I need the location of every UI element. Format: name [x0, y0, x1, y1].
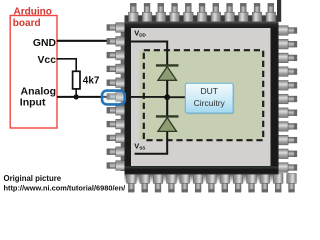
- svg-text:SS: SS: [139, 145, 145, 150]
- label Arduino board: [13, 6, 52, 29]
- input node junction: [74, 94, 79, 99]
- wire resistor to input node: [75, 89, 77, 97]
- resistor R1: [73, 71, 80, 89]
- diode D2 cathode bar: [156, 115, 179, 117]
- wire Vcc to resistor: [57, 59, 77, 72]
- wire D1 to internal node: [166, 80, 168, 97]
- label VDD: [134, 29, 146, 38]
- svg-text:Vcc: Vcc: [38, 55, 57, 66]
- wire D2 to VSS rail: [135, 131, 168, 153]
- Arduino board outline box: [10, 16, 57, 129]
- VDD rail wire: [131, 42, 167, 65]
- wire internal node to diode D2: [166, 97, 168, 116]
- svg-text:DUT: DUT: [200, 86, 217, 96]
- svg-text:DD: DD: [139, 33, 146, 38]
- svg-text:Arduino: Arduino: [14, 6, 52, 17]
- package edge behind bottom pins: [125, 175, 279, 183]
- wire input pin to internal node: [131, 96, 167, 98]
- DUT circuitry block: [185, 83, 234, 114]
- diode D2 (VSS to input): [158, 118, 177, 132]
- wire GND to chip pin: [57, 40, 112, 42]
- svg-text:GND: GND: [33, 38, 57, 49]
- IC left pins: [107, 23, 126, 171]
- IC bottom pins: [127, 174, 297, 193]
- protected region dashed border: [144, 50, 263, 140]
- label VSS: [134, 141, 145, 150]
- caption original picture url: [4, 174, 126, 193]
- svg-text:Circuitry: Circuitry: [194, 98, 226, 108]
- wire internal node to DUT: [167, 96, 185, 98]
- IC right pins: [278, 26, 297, 173]
- svg-text:4k7: 4k7: [83, 76, 100, 87]
- svg-text:Original picture: Original picture: [4, 174, 62, 183]
- package edge behind left pins: [121, 23, 125, 172]
- internal node junction: [164, 94, 170, 100]
- highlighted analog input pin: [102, 91, 125, 105]
- label Analog Input: [20, 86, 56, 109]
- svg-text:Input: Input: [20, 97, 46, 109]
- wire Analog Input to chip pin: [57, 96, 110, 98]
- svg-text:board: board: [13, 18, 41, 29]
- IC top pins: [129, 0, 282, 22]
- IC die surface: [131, 28, 271, 166]
- package edge behind top pins: [125, 15, 279, 21]
- diode D1 (input to VDD): [158, 67, 177, 81]
- IC package body: [125, 22, 279, 175]
- protected circuitry region (green): [140, 50, 264, 140]
- svg-text:http://www.ni.com/tutorial/698: http://www.ni.com/tutorial/6980/en/: [4, 184, 126, 193]
- diode D1 cathode bar: [156, 64, 179, 66]
